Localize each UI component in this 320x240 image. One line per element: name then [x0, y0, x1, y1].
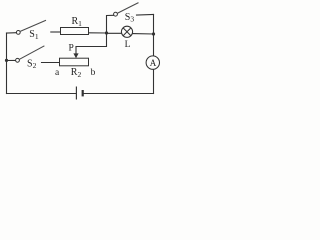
wire lamp to right junction — [133, 33, 154, 35]
switch S1 — [16, 20, 46, 34]
svg-text:b: b — [91, 68, 96, 78]
node junction at R1/lamp/S3/wiper — [105, 31, 108, 34]
wire right rail upper (ammeter to top corner) — [153, 15, 155, 57]
wire left rail — [6, 33, 8, 94]
wire S3 left corner segment — [107, 15, 114, 33]
svg-text:A: A — [150, 58, 157, 68]
wire S2 contact to R2 — [42, 62, 60, 64]
wire bottom rail right (from battery) — [84, 93, 154, 95]
battery cell — [76, 87, 82, 100]
wire S1 contact to R1 — [51, 31, 61, 33]
switch S3 — [114, 3, 139, 17]
wiper arrow P — [73, 53, 78, 58]
wire S2 from rail to pivot — [7, 59, 16, 61]
rheostat R2 box — [60, 58, 89, 66]
node junction on left rail at S2 — [5, 59, 8, 62]
svg-text:L: L — [125, 40, 131, 50]
background — [0, 0, 163, 104]
ammeter A — [146, 56, 159, 69]
switch S2 — [16, 46, 45, 62]
resistor R1 — [61, 28, 89, 35]
wire S3 top right segment — [137, 14, 154, 17]
wire node to lamp — [107, 32, 122, 34]
wire bottom rail left (to battery) — [7, 93, 76, 95]
wire right rail lower (bottom to ammeter) — [153, 69, 155, 93]
svg-text:P: P — [69, 44, 74, 54]
lamp L — [121, 26, 132, 37]
wire R1 to node — [89, 32, 107, 34]
node junction right of lamp — [152, 32, 155, 35]
wire wiper riser and link to node — [76, 33, 107, 54]
wire S1 from left corner to pivot — [7, 32, 17, 34]
